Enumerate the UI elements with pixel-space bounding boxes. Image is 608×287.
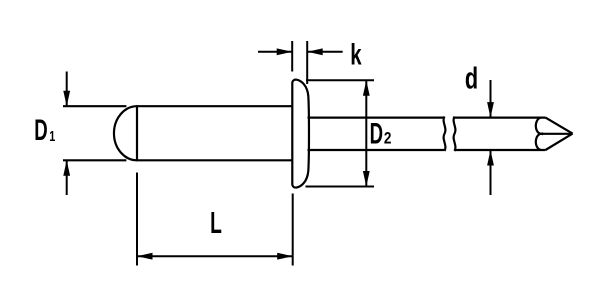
label D1 [34, 114, 55, 148]
arrowhead D1 top [63, 91, 70, 107]
dimension D2 line [365, 80, 367, 186]
svg-text:k: k [350, 39, 362, 72]
arrowhead D2 top [363, 80, 370, 96]
mandrel right segment top [455, 116, 546, 118]
svg-text:d: d [465, 61, 478, 96]
arrowhead d top [487, 102, 494, 118]
dimension k line right segment [307, 51, 343, 53]
arrowhead L left [137, 253, 153, 260]
dimension k line left segment [258, 51, 292, 53]
arrowhead k right [307, 48, 323, 55]
svg-text:D: D [34, 114, 47, 148]
dimension L left extension line [136, 173, 138, 266]
arrowhead k left [277, 48, 293, 55]
dimension D2 bottom extension line [306, 186, 375, 188]
svg-text:2: 2 [384, 129, 392, 148]
svg-text:D: D [370, 117, 383, 151]
dimension D2 top extension line [306, 79, 374, 81]
dimension L right extension line [292, 194, 294, 266]
wire: D1 top extension line [63, 105, 126, 107]
dimension D1 line top segment [66, 72, 68, 107]
rivet body bottom outline [136, 159, 292, 161]
arrowhead D1 bottom [63, 160, 70, 176]
dimension d line top segment [490, 80, 492, 118]
dimension k left tick [291, 41, 293, 72]
mandrel tip centerline [540, 133, 573, 135]
mandrel tip upper lobe arc [536, 118, 544, 134]
mandrel right segment bottom [455, 149, 546, 151]
mandrel left segment bottom [308, 149, 445, 151]
label D2 [370, 117, 392, 151]
dimension D1 line bottom segment [66, 160, 68, 195]
svg-text:1: 1 [49, 127, 55, 144]
mandrel break squiggle right [454, 117, 456, 152]
rivet body top outline [136, 105, 292, 107]
arrowhead L right [277, 253, 293, 260]
mandrel break squiggle left [444, 117, 446, 152]
rivet dome head arc [114, 106, 137, 160]
mandrel tip lower lobe arc [536, 134, 544, 150]
rivet dome head flat side [136, 106, 138, 160]
dimension L line [137, 255, 293, 257]
rivet flange outline [292, 80, 309, 188]
dimension k right tick [306, 41, 308, 84]
arrowhead D2 bottom [363, 171, 370, 187]
svg-text:L: L [210, 206, 222, 240]
mandrel tip taper top [546, 118, 573, 134]
mandrel left segment top [308, 116, 445, 118]
arrowhead d bottom [487, 150, 494, 166]
mandrel tip taper bottom [546, 134, 573, 150]
dimension d line bottom segment [490, 150, 492, 195]
wire: D1 bottom extension line [63, 159, 126, 161]
